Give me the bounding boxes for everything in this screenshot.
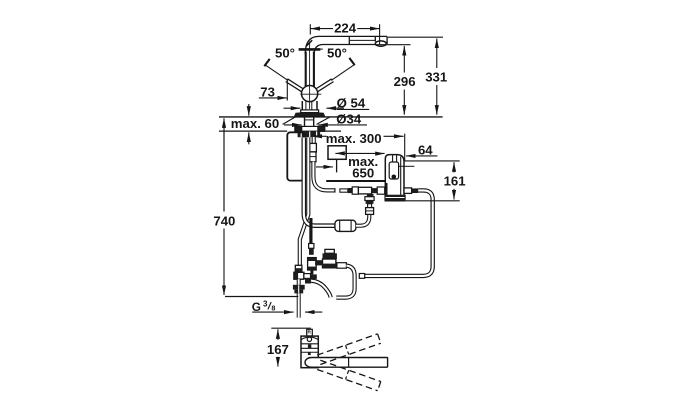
control box outlet fittings [404,188,412,194]
ball joint [302,86,318,102]
counter cut slash right [317,117,330,124]
base ring [301,110,319,113]
backflow preventer capsule [335,220,356,231]
hose H3 run to fitting row [313,162,334,191]
control box top inlet lines [392,155,394,162]
return hose end fitting [359,274,364,279]
fitting row hose end cap [334,188,336,192]
control box bottom flange [384,195,405,201]
hose H3 connector stack [310,143,317,152]
lever top bar tick [299,48,321,51]
lever right construction line [331,64,355,80]
bottom view: spout arm plan [305,358,388,368]
control box indicator dot [392,175,397,180]
hose H3 to control unit: upper stub [312,137,316,144]
capsule to tee elbow hose [356,214,369,226]
spout arm inner line [350,39,376,41]
lever left (tube) [287,80,304,91]
small arrow at cable [316,166,333,168]
dim 740 line + arrows [223,130,225,212]
lever left construction line [265,64,289,80]
fitting row tee body r4 [358,187,371,194]
spout arm bottom edge [324,44,376,46]
svg-text:8: 8 [271,303,275,312]
dim 296 line + arrows [403,46,405,73]
spout joint tick [348,36,350,44]
svg-text:Ø34: Ø34 [336,111,362,126]
angle valve left nipple [315,260,322,265]
control box inner slot [389,162,398,179]
lever right (tube) [316,80,333,91]
lever left end tick [264,59,269,66]
svg-text:73: 73 [260,84,275,99]
svg-text:740: 740 [213,214,235,229]
spray head aerator ellipse [375,41,386,46]
hose H2 supply run [300,138,309,266]
angle valve main body [323,259,336,268]
svg-text:161: 161 [444,173,466,188]
control box body [385,155,404,201]
angle valve upper body [323,253,337,259]
mounting nut [298,131,321,137]
svg-text:50°: 50° [327,46,347,61]
dim 331 extension line [387,36,443,38]
svg-text:3: 3 [263,300,268,309]
mounting washer plate [295,126,325,131]
lever right end tick [349,58,354,65]
svg-text:224: 224 [334,21,357,36]
supply tee right branch [304,274,311,279]
bottom view: 167 extension line [271,327,311,329]
angle valve top cap [325,249,334,253]
spout bend inner [314,45,323,55]
dim 161 line + arrows [453,162,455,172]
bottom view: faucet body plan [301,336,318,368]
spout arm top edge [319,35,387,37]
dim 331 line + arrows [436,39,438,69]
counter underside line left [219,130,287,132]
bottom view: arm joint tick [348,358,350,368]
svg-text:331: 331 [425,69,447,84]
plug cable stub [336,159,338,172]
check valve connector rings [309,244,314,249]
svg-text:296: 296 [394,74,416,89]
bottom view: dashed arm swung up [317,334,381,365]
tee drop fittings [367,194,374,197]
check-valve stub through hose crossing [309,218,312,243]
svg-text:50°: 50° [275,46,295,61]
svg-text:650: 650 [352,166,374,181]
faucet centerline [309,42,311,110]
lever top small diagonal [306,40,312,46]
check valve lower stem [310,270,313,274]
bottom view: dim 167 arrows [277,329,279,340]
spout vertical pipe (lever column) [305,52,307,88]
hose H1 pull-out hose run [304,138,336,226]
supply tee body [294,272,304,279]
countertop surface line [219,116,443,118]
power plug box [328,146,346,160]
G3/8 tail pipe [297,293,301,317]
max650 dimension line plug to box [335,152,384,154]
body below ball [301,101,303,110]
spray head block [375,36,387,43]
bottom view: sensor tab [307,329,313,336]
spout bend outer [305,36,319,54]
fitting row r5 [372,188,378,193]
return hose from control box [360,190,432,276]
dim 224 extension lines [309,24,311,34]
fitting row r2 [348,188,352,193]
fitting row r3 [352,187,358,194]
svg-text:max. 300: max. 300 [326,131,382,146]
control box left wall (dark) [385,183,387,200]
C hose from angle valve to open end [336,266,354,298]
supply column nut [295,265,302,272]
svg-text:64: 64 [418,143,433,158]
check valve body [308,258,317,270]
dim G3/8 arrows [252,311,293,313]
bottom view: dashed arm swung down [317,360,381,391]
control box leader line [399,165,415,167]
power cable to control box [326,180,385,182]
dim 161 extension lines [405,160,460,162]
tee-right hose to open end [311,281,331,298]
check valve elbow to tee [308,274,317,279]
dim 224 line + arrows [311,28,334,30]
fitting row r6 [377,187,385,194]
svg-text:R: R [308,330,312,336]
fitting row r1 [340,189,348,192]
angle valve right nipple [337,263,347,269]
svg-text:max. 60: max. 60 [231,116,279,131]
G3/8 compression fitting [293,285,305,290]
tee-right hose start fitting [305,278,311,283]
escutcheon flange [294,113,324,117]
740 baseline [225,296,298,298]
dim 296 extension line [376,44,411,46]
G3/8 supply pipe below tee [297,279,301,285]
control box inner wall [400,157,402,201]
counter cut slash left [283,117,296,124]
svg-text:167: 167 [267,342,289,357]
threaded shank [304,118,306,131]
under-sink mounting box [287,132,304,180]
counter underside line right [321,130,342,132]
